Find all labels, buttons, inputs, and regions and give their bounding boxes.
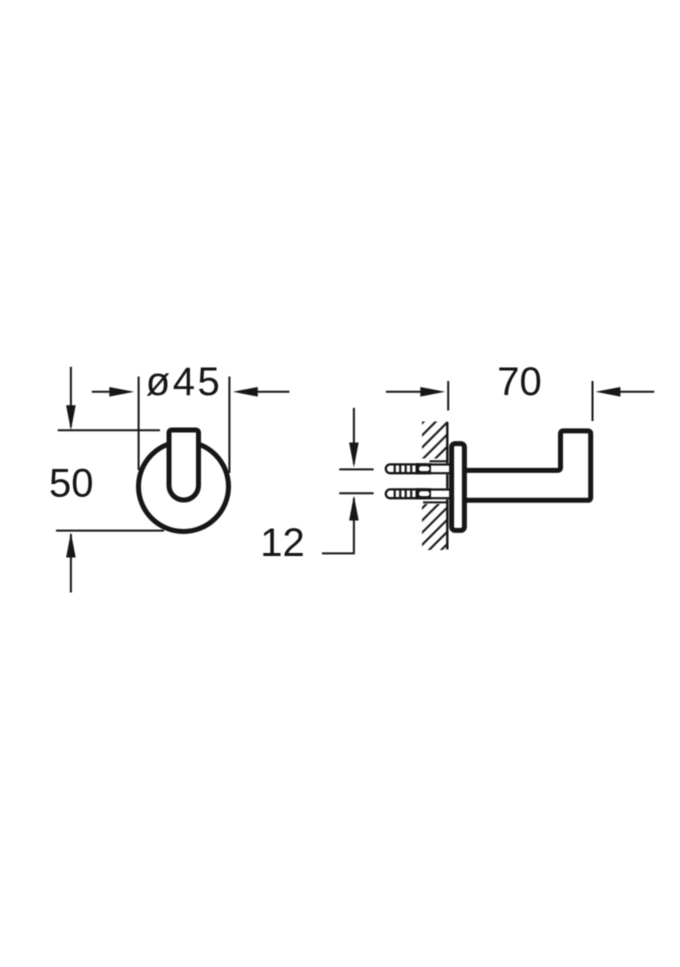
svg-text:12: 12 [260, 521, 305, 565]
svg-text:ø45: ø45 [146, 360, 222, 404]
svg-text:50: 50 [49, 462, 94, 506]
svg-text:70: 70 [497, 360, 542, 404]
